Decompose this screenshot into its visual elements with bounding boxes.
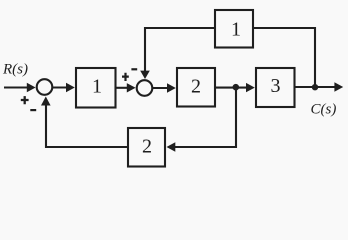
svg-text:1: 1 bbox=[231, 18, 241, 40]
svg-text:1: 1 bbox=[92, 75, 102, 97]
svg-text:2: 2 bbox=[142, 136, 152, 158]
svg-text:3: 3 bbox=[271, 75, 281, 97]
svg-text:C(s): C(s) bbox=[311, 102, 337, 118]
svg-text:R(s): R(s) bbox=[2, 62, 28, 78]
svg-text:2: 2 bbox=[191, 76, 201, 98]
